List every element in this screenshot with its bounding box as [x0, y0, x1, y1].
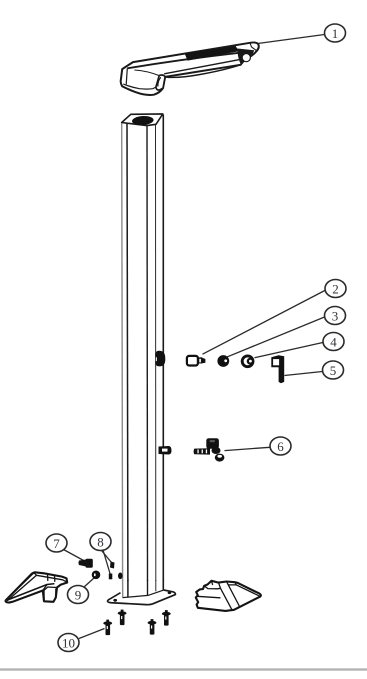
svg-text:7: 7 [53, 536, 60, 551]
svg-text:6: 6 [277, 439, 284, 454]
svg-text:10: 10 [62, 636, 75, 651]
svg-text:5: 5 [330, 363, 337, 378]
svg-text:4: 4 [330, 335, 337, 350]
svg-text:8: 8 [97, 535, 104, 550]
svg-text:3: 3 [332, 309, 339, 324]
svg-text:2: 2 [332, 282, 339, 297]
svg-text:1: 1 [332, 26, 339, 41]
svg-text:9: 9 [75, 588, 82, 603]
